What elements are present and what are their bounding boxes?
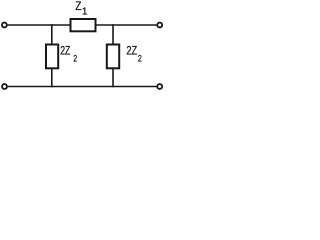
background	[0, 0, 165, 92]
terminal (output, top-right)	[157, 23, 162, 28]
svg-text:2: 2	[138, 54, 142, 65]
svg-text:2: 2	[73, 54, 77, 65]
impedance box 2Z2 (left shunt element)	[46, 45, 58, 69]
wire: top rail, left segment	[8, 24, 71, 26]
wire: right shunt stub, top	[112, 24, 114, 44]
svg-text:1: 1	[82, 7, 88, 18]
svg-text:2Z: 2Z	[126, 46, 137, 58]
wire: left shunt stub, top	[51, 24, 53, 44]
svg-text:2Z: 2Z	[60, 46, 70, 58]
impedance box Z1 (series element)	[71, 19, 96, 31]
impedance box 2Z2 (right shunt element)	[107, 45, 119, 69]
wire: bottom rail	[8, 86, 157, 88]
wire: right shunt stub, bottom	[112, 68, 114, 87]
terminal (input, top-left)	[2, 23, 7, 28]
terminal (input, bottom-left)	[2, 84, 7, 89]
terminal (output, bottom-right)	[157, 84, 162, 89]
wire: left shunt stub, bottom	[51, 68, 53, 87]
wire: top rail, right segment	[96, 24, 157, 26]
svg-text:Z: Z	[75, 1, 81, 13]
